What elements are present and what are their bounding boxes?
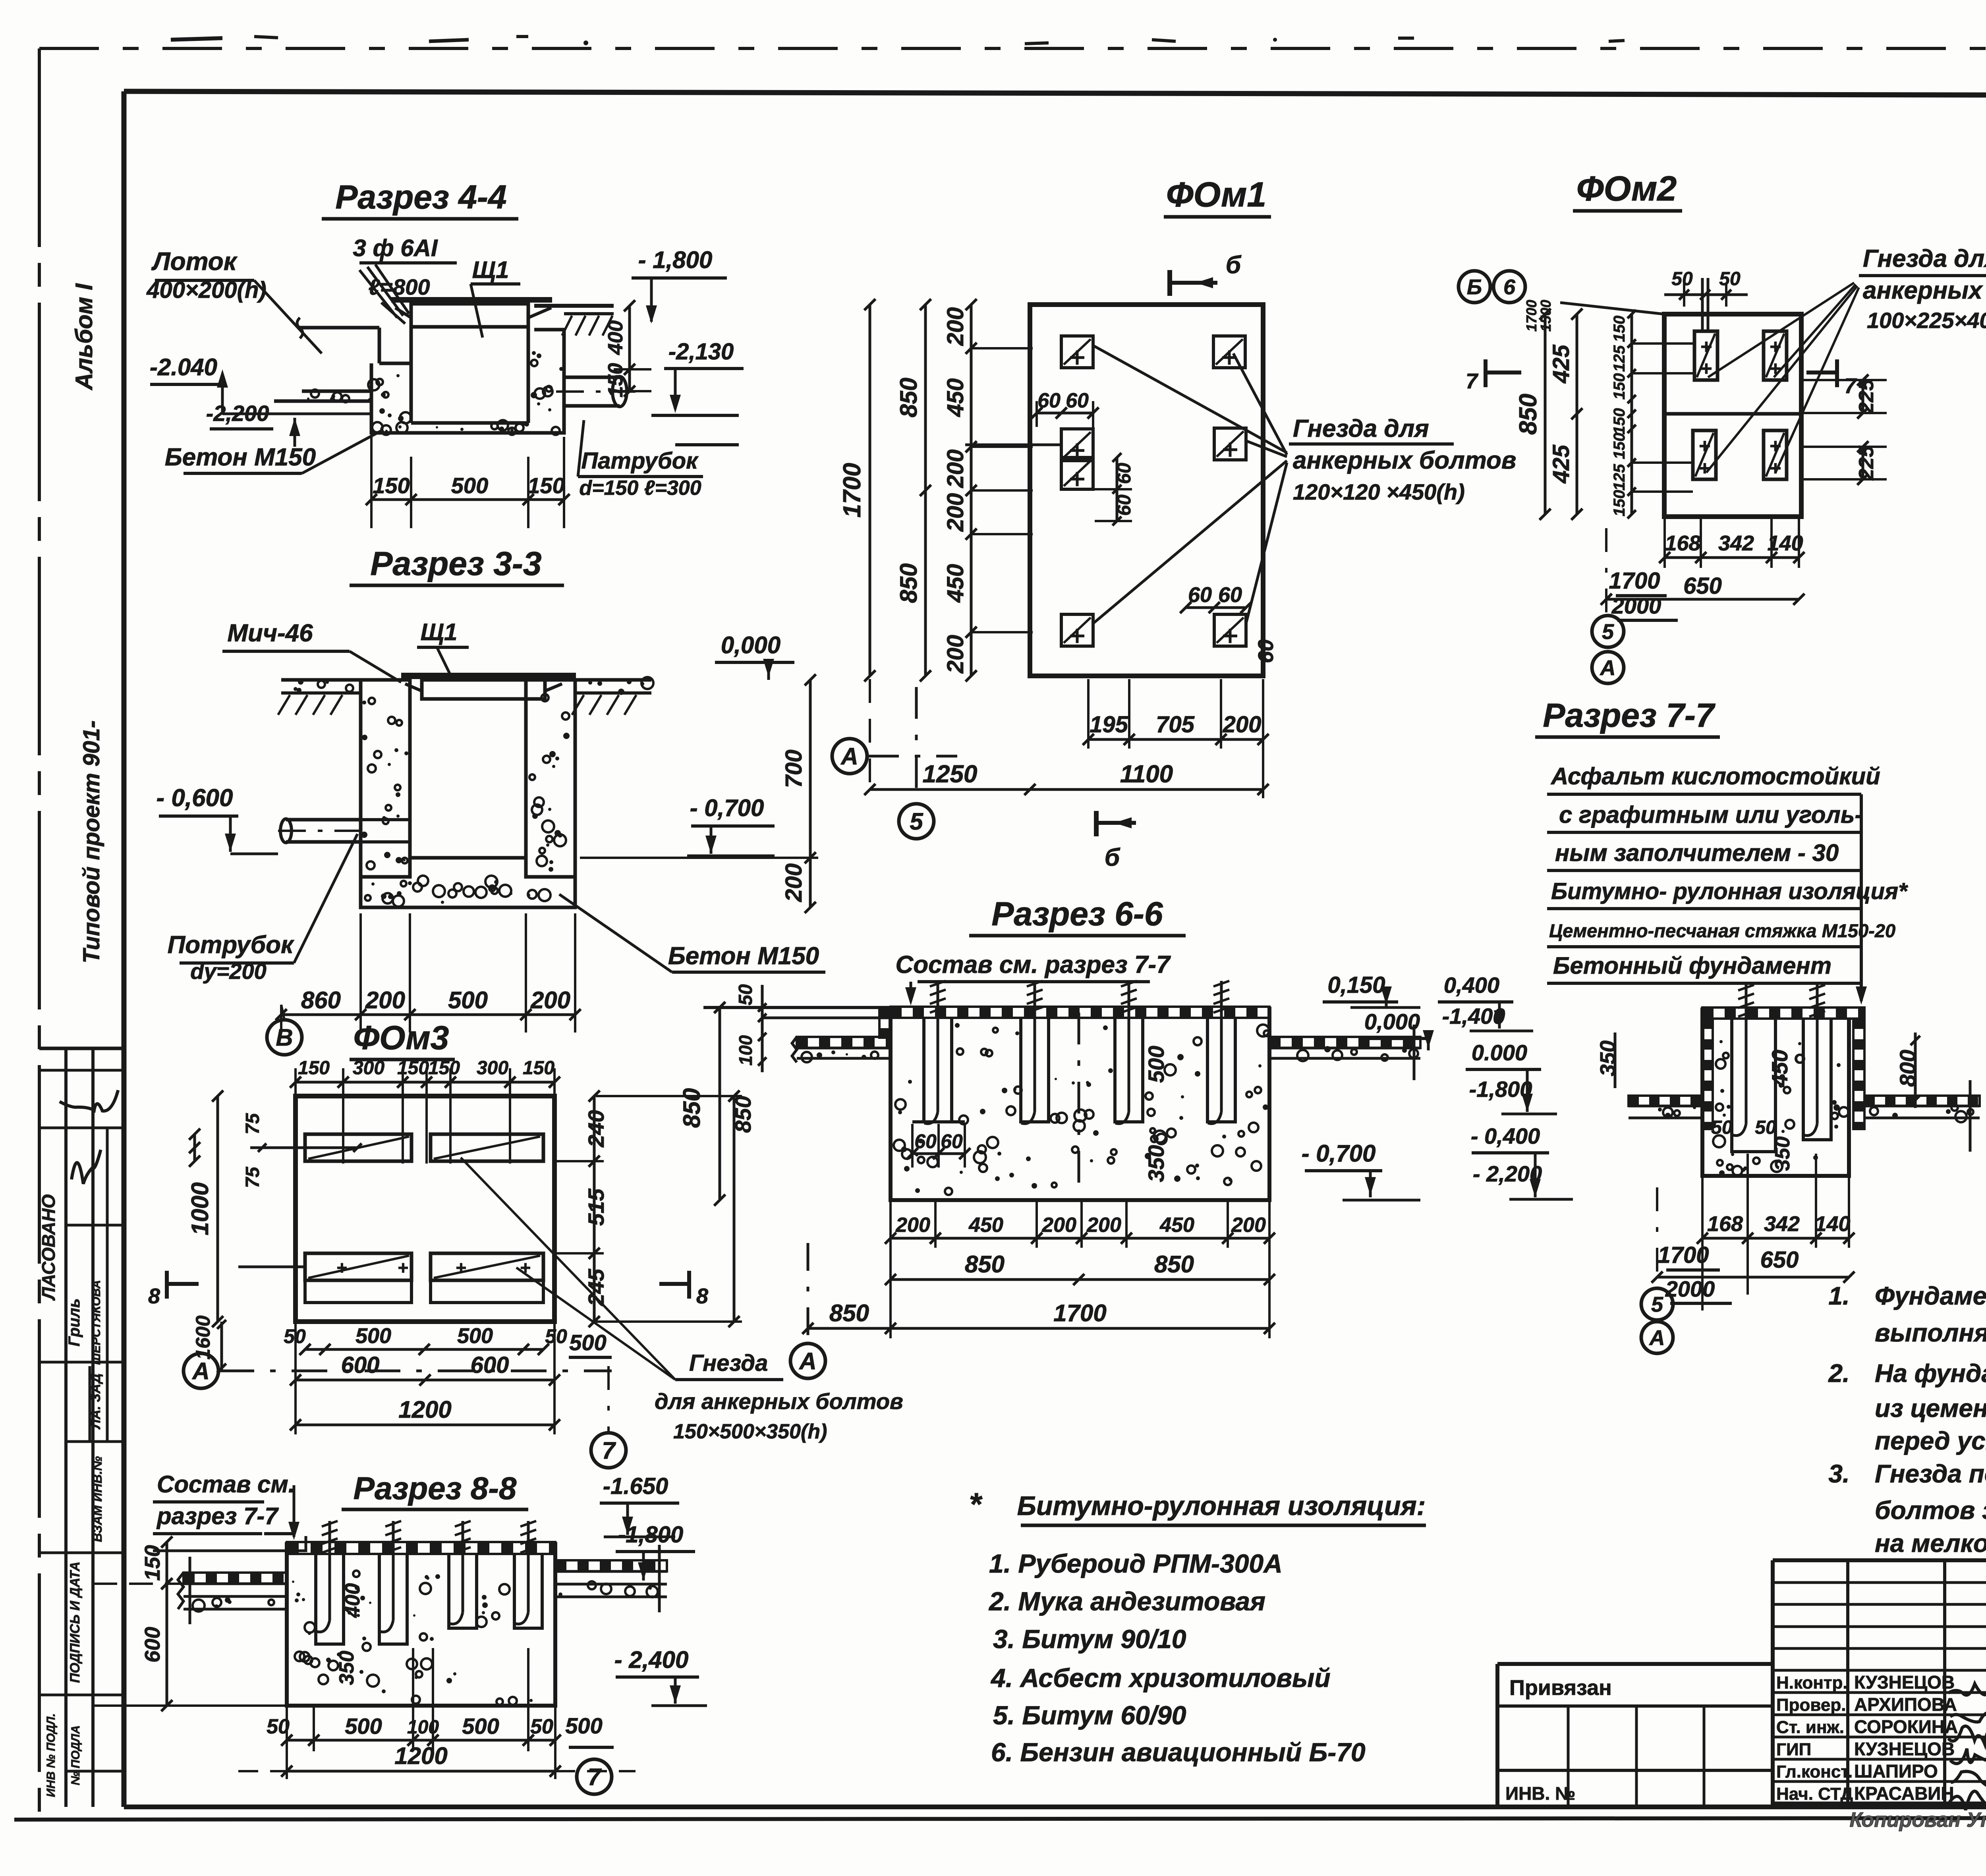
svg-text:Фундаменты под оборудование: Фундаменты под оборудование ФОм1÷ФОм3: [1875, 1282, 1986, 1310]
fom1 section mark b bottom: [1094, 811, 1099, 836]
svg-text:75: 75: [242, 1166, 263, 1188]
svg-text:на мелком заполнителе.: на мелком заполнителе.: [1875, 1529, 1986, 1558]
svg-text:1200: 1200: [394, 1743, 447, 1769]
svg-text:850: 850: [829, 1300, 869, 1326]
svg-text:А: А: [191, 1358, 209, 1384]
fom3 right dims 240-515-245: [593, 1096, 596, 1322]
svg-text:200: 200: [1041, 1214, 1076, 1237]
svg-text:+: +: [336, 1257, 347, 1278]
scan specks top: [171, 38, 222, 40]
fom2 mid line: [1664, 412, 1801, 416]
svg-text:225: 225: [1855, 446, 1878, 481]
r33 axis circle V: [267, 1020, 302, 1055]
fom1 plan rect: [1030, 305, 1263, 676]
svg-text:850: 850: [678, 1088, 705, 1128]
fom2 left dim 850: [1544, 314, 1547, 514]
svg-text:Битумно-рулонная изоляция:: Битумно-рулонная изоляция:: [1017, 1491, 1426, 1521]
fom3 slot 3: [305, 1253, 411, 1280]
r77 pit: [1732, 1019, 1775, 1152]
svg-text:-2,130: -2,130: [668, 339, 734, 365]
r33 ground hatch: [278, 695, 290, 715]
svg-text:200: 200: [781, 863, 807, 902]
svg-text:Бетонный фундамент: Бетонный фундамент: [1553, 952, 1831, 979]
r44 trench walls: [378, 328, 381, 363]
r77 left slab: [1629, 1096, 1702, 1106]
fom2 socket 4: [1764, 430, 1787, 479]
svg-text:А: А: [1600, 656, 1616, 680]
fom1 left dim chain 200-450-200: [970, 305, 973, 676]
svg-text:Типовой проект 901-: Типовой проект 901-: [79, 720, 104, 963]
svg-text:3. Битум 90/10: 3. Битум 90/10: [993, 1624, 1186, 1654]
svg-text:-1,800: -1,800: [1469, 1077, 1532, 1102]
r33 ground lines: [281, 678, 361, 682]
svg-text:450: 450: [1159, 1214, 1194, 1237]
svg-text:0,000: 0,000: [721, 632, 780, 658]
fom1 bottom dim 1250-1100: [870, 788, 1263, 791]
svg-text:-2,200: -2,200: [206, 401, 269, 426]
r44 ground line left: [300, 326, 379, 330]
svg-text:50: 50: [735, 984, 756, 1006]
fom1 socket6 small dims: [1186, 606, 1246, 609]
r33 bottom slab: [361, 877, 575, 907]
svg-text:Щ1: Щ1: [421, 619, 458, 645]
r66 right floor slab: [1269, 1037, 1420, 1048]
svg-text:А: А: [1649, 1326, 1665, 1350]
svg-text:ФОм2: ФОм2: [1576, 169, 1677, 208]
svg-text:450: 450: [943, 564, 968, 603]
svg-text:500: 500: [1144, 1046, 1169, 1083]
svg-text:А: А: [798, 1348, 816, 1374]
svg-text:60: 60: [1066, 389, 1089, 412]
svg-text:7: 7: [1466, 369, 1479, 393]
svg-text:Цементно-песчаная стяжка М150-: Цементно-песчаная стяжка М150-20: [1549, 920, 1895, 941]
svg-text:850: 850: [1154, 1251, 1194, 1278]
svg-text:150: 150: [1611, 316, 1628, 342]
svg-text:120×120 ×450(h): 120×120 ×450(h): [1293, 479, 1465, 504]
svg-text:ВЗАМ ИНВ.№: ВЗАМ ИНВ.№: [90, 1456, 104, 1542]
svg-text:850: 850: [1515, 394, 1542, 434]
svg-text:выполнять из бетона М100;: выполнять из бетона М100;: [1875, 1318, 1986, 1347]
svg-text:№ ПОДЛА: № ПОДЛА: [69, 1725, 82, 1785]
svg-text:60: 60: [941, 1130, 963, 1152]
svg-text:342: 342: [1718, 531, 1754, 555]
svg-text:+: +: [1769, 457, 1781, 479]
svg-text:Ст. инж.: Ст. инж.: [1776, 1718, 1844, 1737]
svg-text:+: +: [456, 1257, 466, 1278]
svg-text:Битумно- рулонная изоляция*: Битумно- рулонная изоляция*: [1551, 878, 1908, 904]
svg-text:1. Рубероид РПМ-300А: 1. Рубероид РПМ-300А: [989, 1549, 1283, 1578]
svg-text:Разрез 7-7: Разрез 7-7: [1543, 697, 1716, 734]
svg-text:150×500×350(h): 150×500×350(h): [673, 1420, 827, 1443]
svg-text:Разрез 6-6: Разрез 6-6: [991, 895, 1163, 932]
svg-text:50: 50: [1719, 268, 1741, 290]
svg-text:5: 5: [1602, 620, 1614, 644]
r88 bolt channels: [316, 1554, 344, 1644]
fom1 axis 5: [899, 804, 934, 839]
svg-text:На фундаментах устраивается: На фундаментах устраивается подливка: [1875, 1359, 1986, 1388]
svg-text:425: 425: [1548, 444, 1574, 484]
svg-text:6: 6: [1503, 275, 1516, 299]
svg-text:150: 150: [1611, 373, 1628, 400]
svg-text:1200: 1200: [398, 1396, 451, 1423]
fom3 right dim 850: [733, 1096, 736, 1322]
svg-text:- 0,700: - 0,700: [690, 795, 764, 821]
r66 corner checker column: [879, 1007, 891, 1038]
r66 axis circle A: [790, 1343, 825, 1378]
svg-text:для анкерных болтов: для анкерных болтов: [655, 1389, 903, 1414]
svg-text:Гриль: Гриль: [66, 1298, 83, 1346]
svg-text:Лоток: Лоток: [151, 247, 238, 276]
svg-text:125: 125: [1611, 345, 1628, 372]
svg-text:500: 500: [451, 473, 488, 498]
fom1 socket 2: [1213, 336, 1245, 368]
svg-text:Щ1: Щ1: [472, 257, 509, 283]
svg-text:342: 342: [1764, 1212, 1800, 1236]
svg-text:150: 150: [1611, 490, 1628, 517]
fom2 plan rect: [1664, 314, 1801, 517]
svg-text:Потрубок: Потрубок: [168, 931, 294, 959]
svg-text:700: 700: [781, 750, 807, 788]
svg-text:б: б: [1226, 251, 1242, 279]
svg-text:200: 200: [1086, 1214, 1121, 1237]
fom1 section mark b top: [1167, 270, 1172, 296]
r77 body outline: [1702, 1007, 1849, 1176]
svg-text:+: +: [1769, 435, 1781, 457]
svg-text:5: 5: [1651, 1293, 1663, 1316]
fom2 socket 2: [1764, 331, 1787, 380]
svg-text:3.: 3.: [1828, 1459, 1849, 1488]
svg-text:Провер.: Провер.: [1776, 1695, 1846, 1715]
r88 right slab: [555, 1560, 667, 1571]
svg-text:3 ф 6АІ: 3 ф 6АІ: [353, 235, 438, 261]
svg-text:4. Асбест хризотиловый: 4. Асбест хризотиловый: [990, 1663, 1331, 1693]
svg-text:60: 60: [914, 1130, 937, 1152]
svg-text:500: 500: [345, 1714, 382, 1739]
r44 pipe: [564, 376, 620, 379]
svg-text:240: 240: [583, 1110, 609, 1147]
svg-text:60: 60: [1188, 583, 1212, 607]
svg-text:1700: 1700: [1658, 1242, 1709, 1268]
svg-text:140: 140: [1814, 1212, 1850, 1236]
r88 body outline: [287, 1542, 555, 1706]
svg-text:ЛАСОВАНО: ЛАСОВАНО: [38, 1194, 59, 1301]
svg-text:ИНВ. №: ИНВ. №: [1505, 1783, 1575, 1804]
svg-text:6. Бензин авиационный Б-70: 6. Бензин авиационный Б-70: [991, 1737, 1366, 1767]
svg-text:8: 8: [148, 1284, 160, 1308]
svg-text:0.000: 0.000: [1472, 1040, 1527, 1065]
svg-text:425: 425: [1548, 344, 1574, 384]
svg-text:300: 300: [353, 1058, 384, 1079]
fom3 top dims: [296, 1081, 554, 1084]
svg-text:5: 5: [910, 808, 923, 835]
inner frame: [124, 91, 1986, 96]
stamp signature scribbles: [60, 1090, 118, 1111]
r66 center axis: [1078, 1013, 1080, 1195]
svg-text:- 0,700: - 0,700: [1302, 1140, 1376, 1167]
r88 left slab: [184, 1573, 287, 1584]
svg-text:75: 75: [242, 1113, 263, 1135]
svg-text:1700: 1700: [1609, 568, 1660, 594]
svg-text:150: 150: [373, 473, 410, 498]
r77 bolts: [1745, 985, 1748, 1124]
r44 ground hatch: [562, 316, 572, 336]
svg-text:168: 168: [1665, 531, 1700, 555]
svg-text:анкерных болтов: анкерных болтов: [1863, 277, 1986, 304]
svg-text:Гнезда после установки анк: Гнезда после установки анкерных: [1875, 1459, 1986, 1488]
svg-text:500: 500: [462, 1714, 499, 1739]
svg-text:168: 168: [1707, 1212, 1743, 1236]
svg-text:60: 60: [1218, 583, 1242, 607]
fom1 inner col line: [1028, 305, 1032, 676]
r88 concrete dots: [367, 1675, 379, 1687]
svg-text:50: 50: [530, 1715, 553, 1738]
svg-text:150: 150: [298, 1058, 330, 1079]
r44 dim right 400-150: [628, 306, 631, 391]
svg-text:2. Мука андезитовая: 2. Мука андезитовая: [988, 1586, 1265, 1616]
svg-text:Разрез 4-4: Разрез 4-4: [335, 178, 506, 216]
svg-text:60: 60: [1114, 494, 1135, 516]
left stamp table grid: [39, 1047, 124, 1050]
svg-text:60: 60: [1114, 463, 1135, 484]
svg-text:ПОДПИСЬ И ДАТА: ПОДПИСЬ И ДАТА: [68, 1561, 83, 1683]
r66 top checker band: [891, 1007, 1269, 1018]
r88 dim 600 left: [166, 1584, 168, 1706]
svg-text:195: 195: [1090, 712, 1128, 737]
title block left part grid: [1497, 1662, 1773, 1666]
svg-text:-1.650: -1.650: [603, 1473, 668, 1499]
svg-text:Привязан: Привязан: [1509, 1676, 1612, 1700]
svg-text:Бетон М150: Бетон М150: [165, 444, 316, 471]
fom3 section marks 8: [165, 1271, 169, 1299]
svg-text:Мич-46: Мич-46: [227, 620, 313, 647]
svg-text:200: 200: [943, 450, 968, 488]
svg-text:150: 150: [523, 1058, 554, 1079]
svg-text:1700: 1700: [1053, 1300, 1106, 1326]
svg-text:8: 8: [696, 1284, 708, 1308]
fom1 socket 5: [1061, 614, 1093, 646]
fom1 socket 6: [1214, 614, 1246, 646]
svg-text:225: 225: [1855, 379, 1878, 414]
svg-text:600: 600: [341, 1352, 380, 1378]
r66 bottom dim chain2: [891, 1278, 1269, 1281]
svg-text:0,150: 0,150: [1327, 972, 1385, 998]
svg-text:500: 500: [569, 1330, 606, 1355]
svg-text:7: 7: [587, 1764, 602, 1790]
svg-text:150: 150: [527, 473, 564, 498]
svg-text:СОРОКИНА: СОРОКИНА: [1854, 1716, 1958, 1737]
fom1 socket 4: [1214, 428, 1246, 460]
fom2 socket 1: [1694, 331, 1717, 380]
svg-text:705: 705: [1156, 712, 1195, 737]
svg-text:515: 515: [583, 1188, 609, 1226]
r66 concrete dots: [895, 1099, 906, 1110]
fom1 socket center small dims: [1037, 412, 1093, 415]
svg-text:500: 500: [457, 1324, 493, 1348]
svg-text:Гнезда для: Гнезда для: [1293, 415, 1429, 442]
svg-text:7: 7: [1844, 374, 1857, 398]
r44 concrete foundation: [371, 330, 564, 433]
svg-text:Разрез 8-8: Разрез 8-8: [354, 1471, 517, 1506]
svg-text:Патрубок: Патрубок: [581, 448, 699, 474]
r77 right slab: [1864, 1096, 1980, 1106]
r66 bolts: [937, 981, 939, 1112]
r66 bottom dim chain3: [808, 1327, 1269, 1330]
svg-text:разрез 7-7: разрез 7-7: [156, 1503, 279, 1529]
fom3 left dims 75: [193, 1134, 196, 1161]
r77 top checker band: [1702, 1007, 1864, 1019]
r33 cover plate: [401, 673, 576, 679]
fom3 axis A: [184, 1353, 218, 1388]
r33 pit walls: [361, 680, 410, 877]
r77 spec pointer: [1860, 794, 1863, 1001]
fom1 left dim 850-850: [924, 305, 927, 676]
r77 concrete dots: [1720, 1089, 1724, 1093]
r33 pit interior: [408, 699, 412, 858]
fom2 leader lines: [1708, 283, 1854, 377]
r66 dims 60-60: [912, 1152, 965, 1155]
r88 bolts: [328, 1521, 331, 1620]
svg-text:650: 650: [1683, 573, 1722, 599]
svg-text:КРАСАВИН: КРАСАВИН: [1854, 1783, 1954, 1804]
fom2 left dims 425: [1576, 314, 1578, 514]
svg-text:Асфальт кислотостойкий: Асфальт кислотостойкий: [1550, 763, 1880, 789]
svg-text:860: 860: [301, 987, 341, 1013]
svg-text:+: +: [1769, 336, 1781, 358]
svg-text:200: 200: [895, 1214, 930, 1237]
r88 top checker band: [287, 1542, 555, 1554]
svg-text:0,000: 0,000: [1364, 1009, 1420, 1034]
svg-text:850: 850: [895, 563, 922, 603]
svg-text:200: 200: [530, 987, 570, 1013]
svg-text:150: 150: [1611, 433, 1628, 459]
r77 bottom dims 168-342-140: [1702, 1237, 1849, 1240]
svg-text:анкерных болтов: анкерных болтов: [1293, 447, 1516, 474]
svg-text:350: 350: [1771, 1137, 1794, 1171]
r88 dim 150 left: [166, 1542, 168, 1584]
fom3 bottom dims 600-600: [296, 1379, 554, 1382]
svg-text:150: 150: [1611, 408, 1628, 435]
fom2 right dims 225: [1862, 380, 1864, 413]
signature scribbles column: [1948, 1684, 1986, 1695]
svg-text:50: 50: [1711, 1117, 1733, 1138]
svg-text:450: 450: [943, 378, 968, 417]
svg-text:1700: 1700: [1523, 300, 1540, 332]
svg-text:ШЕРСТЯКОВА: ШЕРСТЯКОВА: [90, 1280, 103, 1365]
svg-text:600: 600: [471, 1352, 509, 1378]
svg-text:850: 850: [965, 1251, 1005, 1278]
svg-text:Нач. СТД: Нач. СТД: [1776, 1784, 1853, 1804]
svg-text:ФОм1: ФОм1: [1166, 175, 1266, 214]
r44 channel bed dots: [331, 394, 335, 398]
svg-text:болтов заполняются бетоном: болтов заполняются бетоном М200: [1875, 1496, 1986, 1525]
svg-text:- 0,400: - 0,400: [1471, 1123, 1540, 1148]
svg-text:+: +: [1700, 336, 1712, 358]
svg-text:Разрез 3-3: Разрез 3-3: [370, 545, 541, 582]
signature table grid: [1773, 1558, 1986, 1562]
svg-text:125: 125: [1611, 464, 1628, 490]
svg-text:КУЗНЕЦОВ: КУЗНЕЦОВ: [1854, 1672, 1955, 1693]
fom1 left dim 1700: [869, 305, 871, 676]
fom3 plan rect: [296, 1096, 554, 1322]
r88 bottom dims: [287, 1739, 555, 1742]
fom3 slot 4: [431, 1253, 543, 1280]
r77 axis circles: [1641, 1288, 1673, 1320]
svg-text:+: +: [1698, 435, 1710, 457]
svg-text:1700: 1700: [838, 463, 866, 518]
svg-text:из цементного раствора сост: из цементного раствора состава 1:2: [1875, 1394, 1986, 1422]
fom1 bottom dim 195-705-200: [1088, 738, 1263, 741]
svg-text:350: 350: [335, 1651, 358, 1685]
svg-text:1000: 1000: [187, 1182, 213, 1235]
fom2 axis circles bottom: [1592, 616, 1624, 647]
svg-text:Состав см.: Состав см.: [157, 1471, 295, 1498]
svg-text:б: б: [1105, 844, 1121, 871]
svg-text:450: 450: [968, 1214, 1003, 1237]
fom3 bottom dims 50-500: [305, 1348, 543, 1351]
svg-text:-2.040: -2.040: [150, 354, 217, 380]
svg-text:200: 200: [943, 493, 968, 532]
svg-text:ШАПИРО: ШАПИРО: [1854, 1761, 1938, 1781]
svg-text:- 0,600: - 0,600: [156, 784, 233, 812]
svg-text:2.: 2.: [1828, 1359, 1849, 1388]
svg-text:ГИП: ГИП: [1776, 1740, 1811, 1759]
fom2 axis circles top: [1459, 271, 1490, 303]
r66 left floor slab: [797, 1037, 891, 1048]
r77 wall checker left: [1702, 1019, 1713, 1129]
svg-text:5. Битум 60/90: 5. Битум 60/90: [993, 1700, 1186, 1730]
svg-text:200: 200: [943, 307, 968, 346]
fom3 left dim 1000: [216, 1096, 219, 1322]
svg-text:Копирован Уточнение: Копирован Уточнение: [1850, 1808, 1986, 1832]
outer sheet border: [39, 47, 1986, 50]
svg-text:350: 350: [1144, 1145, 1169, 1182]
svg-text:500: 500: [355, 1324, 391, 1348]
r33 bottom dims: [281, 1013, 575, 1016]
svg-text:Бетон М150: Бетон М150: [668, 942, 819, 970]
svg-text:100: 100: [735, 1035, 756, 1065]
fom2 socket 3: [1693, 430, 1716, 479]
svg-text:с графитным или уголь-: с графитным или уголь-: [1559, 801, 1862, 828]
r44 left channel lines: [302, 390, 371, 393]
svg-text:60: 60: [1037, 389, 1061, 412]
svg-text:-1,800: -1,800: [618, 1522, 683, 1548]
svg-text:перед установкой насосов: перед установкой насосов: [1875, 1426, 1986, 1455]
r44 ground line right: [534, 304, 614, 308]
svg-text:150: 150: [141, 1545, 164, 1581]
svg-text:- 2,400: - 2,400: [614, 1646, 689, 1673]
fom2 section marks 7: [1484, 359, 1488, 387]
svg-text:600: 600: [141, 1627, 164, 1662]
svg-text:ℓ=800: ℓ=800: [368, 274, 430, 299]
fom1 socket 1: [1061, 336, 1093, 368]
svg-text:Состав см. разрез 7-7: Состав см. разрез 7-7: [895, 951, 1171, 979]
svg-text:300: 300: [477, 1058, 508, 1079]
r66 dim 850 left: [719, 1007, 721, 1200]
r88 axis circle 7: [577, 1759, 612, 1794]
r66 body outline: [891, 1007, 1269, 1200]
fom3 slot 1: [305, 1134, 411, 1161]
svg-text:400: 400: [604, 320, 627, 355]
r44 bottom dims: [371, 498, 564, 501]
svg-text:200: 200: [365, 987, 405, 1013]
fom1 socket 3: [1061, 429, 1093, 461]
svg-text:650: 650: [1760, 1247, 1799, 1273]
svg-text:150: 150: [428, 1058, 460, 1079]
svg-text:Н.контр.: Н.контр.: [1776, 1673, 1848, 1693]
svg-text:Б: Б: [1467, 275, 1482, 299]
svg-text:Альбом I: Альбом I: [71, 283, 97, 391]
fom3 slot 2: [431, 1134, 543, 1161]
